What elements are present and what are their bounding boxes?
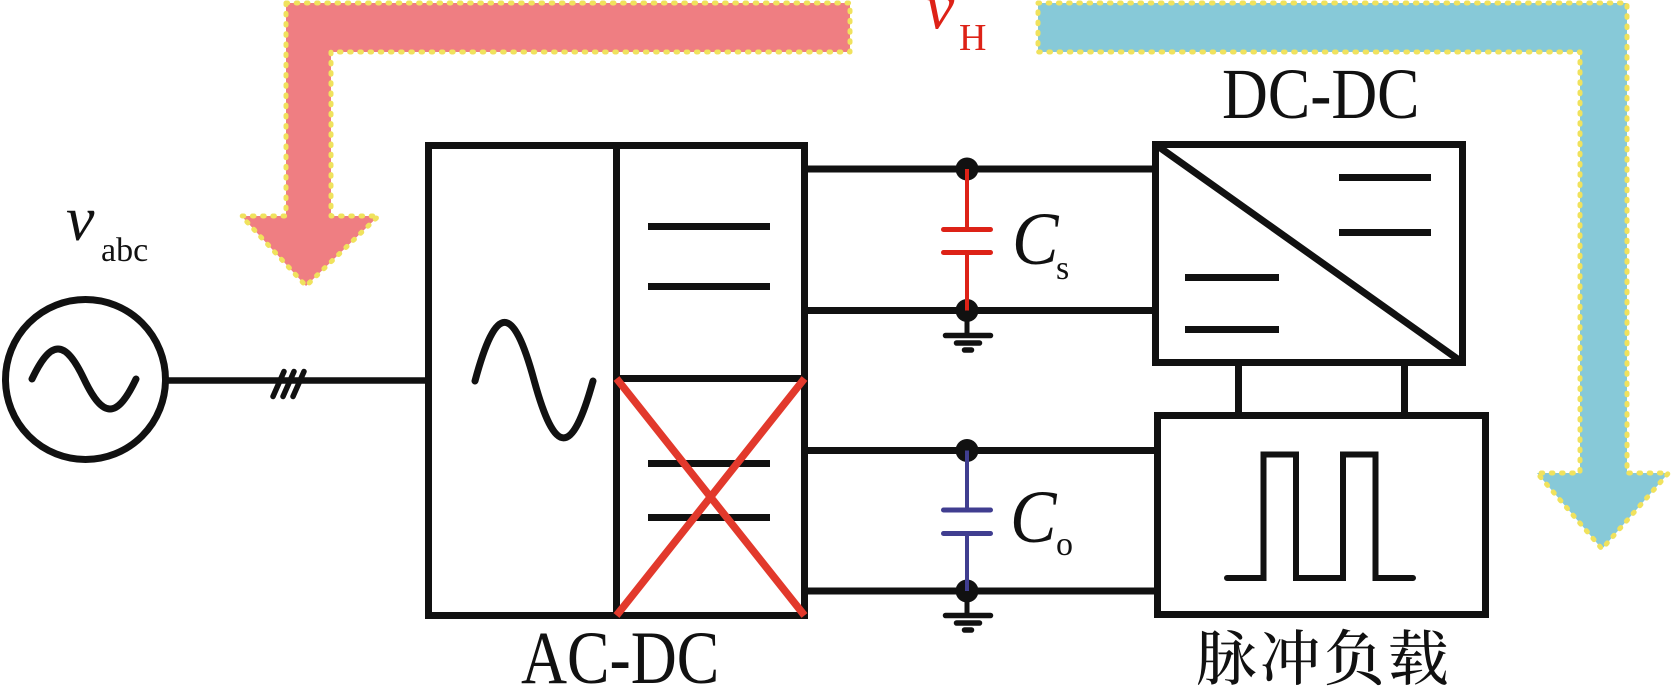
svg-text:v: v bbox=[925, 0, 955, 44]
svg-text:DC-DC: DC-DC bbox=[1222, 55, 1420, 134]
svg-text:o: o bbox=[1056, 526, 1073, 563]
svg-text:C: C bbox=[1010, 475, 1057, 559]
svg-text:v: v bbox=[66, 183, 95, 254]
svg-text:abc: abc bbox=[101, 232, 148, 269]
svg-text:AC-DC: AC-DC bbox=[521, 617, 719, 691]
svg-text:s: s bbox=[1056, 250, 1069, 287]
svg-text:H: H bbox=[959, 17, 986, 59]
svg-text:C: C bbox=[1012, 197, 1059, 281]
